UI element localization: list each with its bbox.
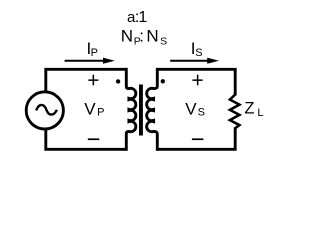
- svg-text::: :: [139, 26, 144, 45]
- plus sign right (VS polarity): [192, 75, 202, 86]
- resistor ZL zigzag: [230, 95, 240, 129]
- svg-text:S: S: [195, 47, 202, 59]
- polarity dot secondary: [161, 79, 165, 83]
- label VP: [84, 99, 104, 118]
- sine symbol inside source: [36, 105, 57, 115]
- transformer core line 1: [139, 85, 141, 136]
- svg-text:Z: Z: [244, 99, 254, 117]
- label VS: [185, 99, 205, 118]
- label IS: [191, 39, 203, 59]
- wire bottom-right loop: [157, 127, 235, 149]
- svg-text:N: N: [146, 26, 158, 45]
- minus sign left (VP polarity): [88, 138, 100, 140]
- polarity dot primary: [116, 79, 120, 83]
- current arrow IS: [170, 58, 219, 64]
- svg-text:L: L: [257, 107, 263, 119]
- plus sign left (VP polarity): [88, 75, 98, 86]
- svg-text:V: V: [84, 99, 96, 118]
- transformer T1 secondary winding: [147, 68, 158, 151]
- svg-text:S: S: [198, 106, 205, 118]
- svg-text:P: P: [97, 107, 104, 119]
- wire top-left loop: [46, 69, 127, 93]
- label NP:NS turns ratio: [121, 26, 167, 47]
- current arrow IP: [65, 58, 115, 64]
- transformer T1 primary winding: [126, 68, 136, 151]
- voltage source VS1 (AC source circle): [26, 92, 63, 129]
- label IP: [87, 39, 98, 59]
- svg-text:1: 1: [138, 9, 147, 26]
- wire top-right loop: [157, 69, 235, 95]
- svg-text:V: V: [185, 99, 197, 118]
- wire bottom-left loop: [46, 128, 127, 149]
- minus sign right (VS polarity): [192, 138, 204, 140]
- svg-text:P: P: [91, 47, 98, 59]
- transformer core line 2: [141, 85, 143, 136]
- label a:1 turns ratio: [127, 9, 147, 26]
- label ZL: [244, 99, 263, 118]
- svg-text:S: S: [160, 36, 167, 48]
- svg-text:N: N: [121, 26, 133, 45]
